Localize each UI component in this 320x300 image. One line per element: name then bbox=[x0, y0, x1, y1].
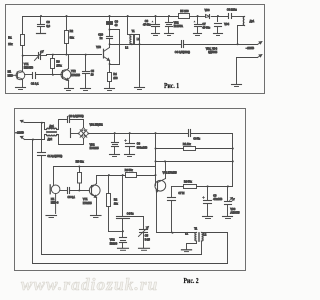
wire: R2 bottom to varicap node bbox=[109, 231, 123, 233]
svg-text:VD3: VD3 bbox=[230, 208, 235, 211]
transistor VT1 with microphone M1 bbox=[14, 56, 34, 88]
svg-text:Рис. 1: Рис. 1 bbox=[164, 82, 179, 90]
ground (VT1 emitter fig2) bbox=[91, 216, 102, 218]
wire: C1 down to bottom loop bbox=[42, 156, 202, 255]
svg-text:L2: L2 bbox=[125, 45, 128, 49]
resistor R4 bbox=[108, 65, 119, 88]
svg-text:Др1: Др1 bbox=[49, 125, 54, 128]
diode VD4 with ground bbox=[214, 17, 230, 36]
trimmer capacitor C5 (fig2) with ground bbox=[139, 227, 151, 251]
svg-text:С5: С5 bbox=[145, 235, 149, 238]
svg-text:С4 5н: С4 5н bbox=[127, 213, 134, 216]
transformer T1 (fig1) bbox=[125, 17, 140, 50]
svg-text:С4 0,5(220п): С4 0,5(220п) bbox=[175, 50, 190, 54]
junction dots fig2 bbox=[32, 122, 234, 234]
resistor R2 bbox=[65, 17, 75, 55]
svg-text:Т1: Т1 bbox=[132, 29, 136, 33]
capacitor C8 (series, on rail) bbox=[227, 8, 237, 19]
svg-text:91к: 91к bbox=[70, 36, 75, 40]
svg-text:КТ315Б: КТ315Б bbox=[83, 202, 92, 205]
output transformer T1 (fig2) bbox=[185, 228, 207, 242]
svg-text:L2: L2 bbox=[204, 234, 207, 237]
resistor R1 bbox=[8, 17, 24, 56]
wire: T1 primary bottom to ground bbox=[187, 242, 197, 250]
wire: VT2 emitter down to T1 bbox=[157, 193, 197, 233]
wire: fig1 mid rail bbox=[47, 55, 102, 56]
resistor R3 bbox=[51, 55, 63, 75]
capacitor C10 bbox=[98, 30, 112, 45]
svg-text:www.radiozuk.ru: www.radiozuk.ru bbox=[21, 275, 158, 294]
microphone M1 bbox=[8, 71, 14, 78]
varicap diode VD2 KV109 with ground bbox=[110, 232, 129, 251]
microphone M1 (fig2) bbox=[50, 185, 60, 214]
bridge rectifier VD1 (fig2) bbox=[78, 123, 104, 138]
input terminal 2 (arrow) bbox=[21, 136, 25, 139]
resistor R3 56k (fig2) bbox=[125, 169, 156, 178]
electrolytic capacitor C9 (fig2) with ground bbox=[203, 187, 223, 219]
capacitor C2 (fig2) bbox=[68, 115, 84, 122]
svg-text:R5 62к: R5 62к bbox=[76, 160, 85, 164]
svg-text:VD2: VD2 bbox=[90, 143, 95, 146]
svg-text:10к: 10к bbox=[114, 202, 119, 205]
svg-text:R3: R3 bbox=[56, 61, 60, 64]
transformer core (fig2 input) bbox=[47, 131, 57, 133]
svg-text:10: 10 bbox=[91, 74, 94, 77]
svg-text:МКЭ: МКЭ bbox=[8, 74, 14, 77]
svg-text:Рис. 2: Рис. 2 bbox=[184, 277, 199, 285]
capacitor C9 bbox=[107, 17, 119, 30]
svg-text:КТ315Б: КТ315Б bbox=[71, 74, 80, 77]
svg-text:47м16В: 47м16В bbox=[213, 198, 222, 201]
svg-text:С1 0,1: С1 0,1 bbox=[31, 82, 39, 86]
svg-text:150: 150 bbox=[113, 77, 118, 80]
transistor VT2 (fig2) bbox=[155, 162, 177, 193]
svg-text:КП307В: КП307В bbox=[24, 67, 33, 70]
capacitor C1 (fig2 mains) bbox=[38, 123, 63, 159]
wire: rail to VT2 base vertical bbox=[155, 134, 157, 186]
svg-text:L1: L1 bbox=[185, 233, 188, 236]
zener diode VD2 (fig2) with ground bbox=[90, 134, 120, 157]
transistor VT1 (fig2) bbox=[83, 176, 100, 216]
figure 2 border frame bbox=[15, 109, 246, 271]
svg-text:С8 5н: С8 5н bbox=[193, 138, 200, 141]
wire: C2 to bridge top bbox=[70, 120, 84, 128]
capacitor C6 (fig2) bbox=[60, 188, 90, 200]
capacitor C5 (fig1) with ground bbox=[83, 55, 95, 88]
diode VD3 (series, on rail) bbox=[205, 9, 210, 19]
wire: C4 node to trimmer C5 bbox=[130, 217, 144, 230]
svg-text:С2 0,1(250В): С2 0,1(250В) bbox=[69, 115, 84, 118]
wire: tank ground drop bbox=[139, 45, 141, 88]
svg-text:С7: С7 bbox=[202, 23, 206, 26]
svg-text:43: 43 bbox=[115, 23, 118, 27]
resistor R5 (fig2) bbox=[76, 160, 85, 191]
capacitor C1 bbox=[25, 73, 62, 86]
svg-text:КД503Б: КД503Б bbox=[208, 51, 217, 54]
capacitor C4 (fig1 output coupling) bbox=[140, 41, 238, 55]
svg-text:Др1: Др1 bbox=[250, 19, 255, 23]
svg-text:~220В: ~220В bbox=[15, 130, 24, 134]
svg-text:R4 56к: R4 56к bbox=[184, 181, 193, 184]
svg-text:VD2: VD2 bbox=[110, 239, 115, 242]
svg-text:R1: R1 bbox=[8, 36, 12, 40]
svg-text:Др2: Др2 bbox=[48, 138, 53, 141]
svg-text:С1 0,1(250В): С1 0,1(250В) bbox=[47, 155, 62, 158]
svg-text:VT1: VT1 bbox=[24, 63, 29, 66]
transistor VT2 (fig1) bbox=[61, 55, 80, 88]
ground (tank) bbox=[135, 88, 145, 90]
svg-text:47-63в: 47-63в bbox=[202, 27, 210, 30]
ground (VT2 emitter) bbox=[65, 89, 74, 91]
svg-text:47-63в: 47-63в bbox=[143, 24, 151, 27]
svg-text:VT3: VT3 bbox=[96, 46, 101, 49]
input terminal 1 (arrow) bbox=[21, 120, 25, 122]
svg-text:КС518Б: КС518Б bbox=[90, 147, 99, 150]
transistor VT3 bbox=[96, 45, 109, 65]
varicap VD1 (modulator trimmer) bbox=[23, 51, 47, 61]
svg-text:270к: 270к bbox=[56, 65, 62, 68]
svg-text:6,8: 6,8 bbox=[46, 24, 50, 28]
svg-text:22к: 22к bbox=[8, 42, 13, 46]
svg-text:С6 0,1: С6 0,1 bbox=[68, 196, 76, 199]
output terminal 2 (arrow) with ground bbox=[232, 55, 262, 87]
capacitor C3 with ground bbox=[37, 17, 51, 34]
wire: VT1 collector line (wire B) bbox=[97, 175, 126, 177]
svg-text:R3 56к: R3 56к bbox=[125, 169, 134, 172]
inductor (choke) Dr1 bbox=[243, 17, 254, 26]
resistor R2 (fig2) bbox=[107, 176, 119, 232]
LED VD3 with ground bbox=[223, 187, 240, 219]
svg-text:С8 220н: С8 220н bbox=[227, 8, 237, 12]
wire: Dr2 out to bridge bottom bbox=[57, 135, 84, 145]
wire: mic supply rail (wire A) bbox=[54, 167, 156, 186]
electrolytic capacitor C3 (fig2) with ground bbox=[125, 134, 148, 157]
svg-text:VT2: VT2 bbox=[71, 70, 76, 73]
ground (T1) bbox=[182, 250, 192, 252]
ground (VT1 source) bbox=[16, 88, 26, 90]
svg-text:R4: R4 bbox=[113, 73, 117, 76]
svg-text:R2: R2 bbox=[70, 29, 74, 33]
ground (R4) bbox=[105, 89, 115, 91]
svg-text:Т1: Т1 bbox=[194, 228, 198, 231]
wire: T1 secondary bottom to loop bbox=[201, 242, 203, 255]
svg-text:КС156А: КС156А bbox=[174, 25, 183, 28]
wire: T1 secondary top to mains loop bbox=[202, 233, 228, 264]
zener diode VD2 (fig1) with ground bbox=[165, 17, 184, 36]
wire: mains line 1 into choke Dr1 bbox=[25, 123, 47, 130]
svg-text:VT1: VT1 bbox=[83, 198, 88, 201]
svg-text:R2: R2 bbox=[114, 199, 118, 202]
inductor Dr1 (fig2) bbox=[47, 125, 57, 129]
svg-text:МКЭ-3: МКЭ-3 bbox=[51, 202, 59, 205]
svg-text:R1 12к: R1 12к bbox=[183, 143, 192, 146]
svg-text:С5: С5 bbox=[91, 70, 95, 73]
junction dots fig1 bbox=[22, 15, 239, 76]
inductor Dr2 bbox=[47, 135, 57, 142]
wire: fig1 top supply rail bbox=[23, 16, 179, 18]
wire: mains line 2 into choke Dr2 bbox=[25, 135, 47, 140]
capacitor C7 (fig2) bbox=[168, 187, 185, 233]
svg-text:КВ109: КВ109 bbox=[110, 242, 118, 245]
capacitor C8 5n (fig2, series on rail) bbox=[189, 130, 201, 141]
wire: T1 secondary to output node bbox=[132, 35, 140, 45]
svg-text:С7 М: С7 М bbox=[178, 192, 184, 195]
capacitor C4 5n (fig2) bbox=[117, 176, 135, 232]
svg-text:VT2 КТ315Б: VT2 КТ315Б bbox=[163, 171, 177, 174]
wire: collector supply branch bbox=[156, 161, 233, 163]
svg-text:300м16В: 300м16В bbox=[137, 146, 148, 149]
resistor R5 bbox=[179, 9, 190, 18]
svg-text:VD3: VD3 bbox=[205, 9, 210, 12]
plate electrode (coupling plate) bbox=[71, 129, 79, 138]
svg-text:2н: 2н bbox=[100, 36, 103, 40]
resistor R1 (fig2) bbox=[156, 143, 233, 151]
resistor R4 (fig2) bbox=[172, 181, 233, 189]
wire: VT3 collector node to C4 node bbox=[110, 44, 140, 46]
svg-text:АЛ307Б: АЛ307Б bbox=[230, 211, 240, 214]
output terminal 1 (arrow) bbox=[238, 42, 262, 45]
svg-text:С3: С3 bbox=[46, 20, 50, 24]
ground (C5) bbox=[81, 89, 91, 91]
capacitor C6 with ground bbox=[143, 17, 160, 36]
wire: fig2 dc rail bbox=[89, 133, 189, 135]
svg-text:VD2: VD2 bbox=[174, 21, 179, 24]
figure 1 border frame bbox=[6, 5, 265, 94]
svg-text:М1: М1 bbox=[8, 71, 12, 74]
svg-text:С6: С6 bbox=[145, 20, 149, 23]
svg-text:С9: С9 bbox=[213, 194, 217, 197]
svg-text:R5 200: R5 200 bbox=[180, 9, 189, 13]
wire: mains line 2 bottom loop bbox=[33, 140, 228, 264]
svg-text:VD1 КЦ402: VD1 КЦ402 bbox=[90, 123, 104, 126]
svg-text:VD4: VD4 bbox=[224, 23, 229, 26]
svg-text:М1: М1 bbox=[51, 198, 55, 201]
svg-text:С3: С3 bbox=[137, 143, 141, 146]
ground (mic M1) bbox=[46, 216, 57, 218]
svg-text:5-25: 5-25 bbox=[145, 238, 151, 241]
wire: feedback loop around VT3 bbox=[110, 30, 120, 65]
wire: Dr1 bottom to output terminal 1 bbox=[238, 26, 245, 45]
svg-text:С9: С9 bbox=[115, 19, 119, 23]
wire: choke Dr1 out to C2 bbox=[57, 120, 67, 130]
svg-text:~220В: ~220В bbox=[246, 46, 254, 50]
capacitor C7 with ground bbox=[194, 17, 211, 36]
svg-text:С10: С10 bbox=[98, 32, 103, 36]
